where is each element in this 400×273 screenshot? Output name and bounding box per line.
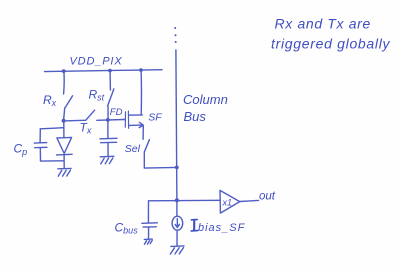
current source Ibias wire top	[176, 201, 178, 217]
ground (Ibias)	[170, 246, 184, 254]
switch Sel blade	[144, 140, 149, 153]
transistor SF gate bar	[124, 112, 126, 127]
wire Sel lower	[143, 153, 145, 168]
capacitor Cp plates	[34, 142, 46, 145]
label Ibias_SF	[191, 220, 197, 231]
svg-text:bias_SF: bias_SF	[198, 222, 246, 234]
svg-text:Bus: Bus	[184, 109, 207, 124]
capacitor CFD	[100, 120, 117, 157]
wire Rx upper	[63, 71, 66, 94]
svg-text:triggered globally: triggered globally	[271, 36, 391, 52]
transistor SF source with arrow	[129, 124, 143, 126]
column bus dotted continuation	[174, 27, 176, 29]
svg-text:VDD_PIX: VDD_PIX	[70, 56, 123, 68]
wire Cp bottom branch	[41, 160, 64, 162]
wire bottom horizontal	[149, 199, 221, 202]
capacitor Cbus	[142, 201, 158, 238]
wire FD horizontal	[97, 119, 124, 122]
op-amp buffer x1 triangle	[220, 190, 240, 213]
wire amp output	[240, 200, 259, 201]
wire Sel to column bus	[144, 166, 177, 169]
wire Rx lower	[64, 108, 65, 120]
svg-text:out: out	[259, 191, 276, 203]
svg-text:x1: x1	[222, 198, 233, 208]
wire SF source down	[142, 126, 144, 139]
wire Cp left vertical upper	[39, 129, 41, 143]
switch Tx blade	[86, 110, 95, 120]
node sense (PD) junction	[62, 119, 66, 123]
transistor SF gate wire	[124, 119, 125, 121]
node Sel-bus junction	[175, 166, 179, 170]
wire VDD_PIX rail	[45, 70, 163, 72]
transistor SF channel bar	[127, 111, 129, 128]
wire SF drain to VDD	[140, 70, 142, 115]
svg-text:Column: Column	[183, 92, 228, 107]
ground (Cbus) small	[144, 239, 152, 244]
photodiode D1 triangle	[57, 137, 72, 153]
svg-text:Tx: Tx	[80, 121, 92, 136]
node VDD-Rst junction	[108, 69, 112, 73]
switch Rst blade	[108, 89, 114, 106]
current source Ibias circle	[172, 216, 183, 230]
wire Ibias to ground	[176, 230, 178, 245]
node VDD-SF junction	[139, 68, 143, 72]
wire PD to ground	[63, 155, 65, 168]
switch Rx blade	[65, 96, 72, 108]
ground (photodiode)	[58, 168, 71, 176]
wire column bus	[176, 50, 177, 202]
photodiode D1 cathode bar	[57, 153, 73, 156]
current source Ibias arrow	[176, 219, 178, 227]
wire PD anode	[63, 121, 65, 138]
node bus-bottom junction	[175, 198, 179, 202]
node FD junction	[106, 118, 110, 122]
svg-text:SF: SF	[148, 112, 162, 124]
transistor SF drain	[129, 114, 143, 116]
svg-text:Rst: Rst	[89, 88, 105, 103]
svg-text:Cp: Cp	[14, 142, 28, 158]
svg-text:Rx and Tx are: Rx and Tx are	[275, 16, 371, 32]
svg-text:Rx: Rx	[43, 93, 57, 108]
wire Rst lower	[107, 106, 109, 119]
wire Cp top branch	[40, 128, 63, 129]
svg-text:Cbus: Cbus	[115, 221, 139, 236]
wire Cp left vertical lower	[39, 148, 41, 161]
wire Tx left	[64, 119, 86, 122]
svg-text:FD: FD	[110, 107, 123, 118]
svg-text:Sel: Sel	[125, 143, 141, 155]
node VDD-Rx junction	[62, 69, 66, 73]
wire Rst upper	[109, 71, 111, 90]
ground (FD cap)	[100, 156, 114, 164]
